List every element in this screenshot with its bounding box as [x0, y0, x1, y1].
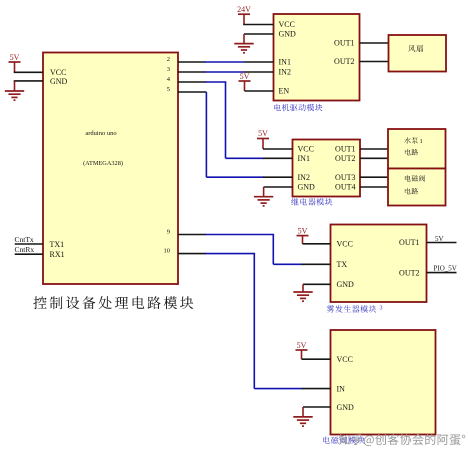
svg-text:5: 5: [167, 86, 170, 93]
svg-text:arduino uno: arduino uno: [85, 130, 116, 137]
ground (relay GND): [263, 187, 265, 197]
svg-text:GND: GND: [50, 77, 68, 86]
svg-text:CntTx: CntTx: [15, 235, 34, 244]
water pump circuit block: [388, 129, 446, 169]
wire relay OUT1: [360, 148, 388, 150]
wire U1 VCC: [14, 71, 43, 73]
svg-text:TX1: TX1: [50, 240, 65, 249]
svg-text:GND: GND: [337, 403, 355, 412]
label motor driver module: [274, 104, 322, 111]
label solenoid valve module: [323, 436, 365, 443]
MCU block U1 (controller): [43, 53, 178, 285]
solenoid valve circuit block: [388, 169, 446, 206]
svg-text:IN1: IN1: [298, 154, 310, 163]
wire relay GND: [264, 186, 293, 188]
power port 5V (module3 VCC): [297, 235, 309, 237]
motor driver block: [274, 14, 360, 101]
wire pin4 to relay IN1: [178, 81, 206, 83]
wire U1 GND: [14, 80, 43, 82]
wire motor EN: [245, 90, 274, 92]
fan block: [389, 35, 447, 72]
label controller module title: [33, 296, 193, 309]
ground (U1 GND): [14, 81, 16, 91]
svg-text:IN: IN: [337, 385, 346, 394]
svg-text:CntRx: CntRx: [15, 245, 35, 254]
svg-text:5V: 5V: [297, 341, 307, 350]
relay block: [293, 140, 361, 197]
svg-text:24V: 24V: [237, 5, 251, 14]
svg-text:OUT1: OUT1: [399, 238, 419, 247]
pin stub bottom IN: [302, 388, 331, 390]
svg-text:GND: GND: [298, 183, 316, 192]
svg-text:(ATMEGA328): (ATMEGA328): [83, 160, 123, 167]
svg-text:3: 3: [167, 66, 170, 73]
svg-text:OUT2: OUT2: [334, 57, 354, 66]
power port 5V (U1 VCC): [9, 61, 21, 63]
label relay module: [291, 198, 332, 205]
svg-text:OUT2: OUT2: [335, 154, 355, 163]
pin stub motor IN1: [244, 61, 274, 63]
text fan: [408, 45, 423, 52]
svg-text:5V: 5V: [258, 129, 268, 138]
wire module3 GND: [303, 283, 331, 285]
wire relay OUT3: [360, 176, 388, 178]
wire pin5 to relay IN2: [178, 91, 206, 93]
svg-text:EN: EN: [279, 87, 290, 96]
wire relay OUT4: [360, 186, 388, 188]
watermark zhihu: [339, 434, 465, 446]
wire motor VCC: [243, 24, 273, 26]
svg-text:5V: 5V: [298, 226, 308, 235]
svg-text:OUT1: OUT1: [335, 145, 355, 154]
svg-text:RX1: RX1: [50, 250, 65, 259]
power port 5V (motor EN): [239, 80, 251, 82]
svg-text:VCC: VCC: [337, 355, 353, 364]
power port 5V (bottom VCC): [296, 349, 308, 351]
svg-text:IN2: IN2: [298, 173, 310, 182]
wire motor OUT2 to fan: [360, 61, 389, 63]
svg-text:1: 1: [420, 138, 423, 145]
wire pin10 to bottom module IN: [178, 253, 206, 255]
text water pump 1 circuit: [404, 137, 418, 144]
wire motor GND: [244, 33, 274, 35]
wire pin2 to motor IN1: [178, 61, 206, 63]
wire relay VCC: [263, 148, 293, 150]
wire bottom VCC: [302, 358, 331, 360]
pin stub motor IN2: [244, 71, 274, 73]
ground (bottom GND): [302, 407, 304, 417]
svg-text:IN1: IN1: [279, 58, 291, 67]
svg-text:2: 2: [167, 56, 170, 63]
wire module3 OUT1: [427, 242, 457, 244]
fog generator block: [331, 225, 427, 303]
svg-text:5V: 5V: [10, 53, 20, 62]
power port 24V (motor VCC): [238, 13, 250, 15]
wire bottom GND: [303, 406, 331, 408]
wire module3 OUT2: [427, 272, 457, 274]
wire pin3 to motor IN2: [178, 71, 206, 73]
svg-text:GND: GND: [337, 280, 355, 289]
pin stub relay IN2: [263, 176, 293, 178]
wire U1 TX1: [15, 243, 43, 245]
wire pin9 to module3 TX: [178, 234, 206, 236]
svg-text:3: 3: [380, 306, 383, 312]
wire relay OUT2: [360, 157, 388, 159]
svg-text:TX: TX: [337, 260, 348, 269]
pin stub relay IN1: [263, 157, 293, 159]
power port 5V (relay VCC): [257, 138, 269, 140]
svg-text:5V: 5V: [240, 72, 250, 81]
wire module3 VCC: [303, 243, 331, 245]
svg-text:VCC: VCC: [298, 145, 314, 154]
pin stub module3 TX: [302, 263, 331, 265]
svg-text:OUT1: OUT1: [334, 39, 354, 48]
svg-text:PIO_5V: PIO_5V: [434, 264, 457, 272]
svg-text:OUT3: OUT3: [335, 173, 355, 182]
svg-text:OUT4: OUT4: [335, 183, 355, 192]
svg-text:VCC: VCC: [279, 20, 295, 29]
ground (motor GND): [243, 34, 245, 44]
text solenoid valve circuit: [405, 175, 425, 181]
svg-text:GND: GND: [279, 30, 297, 39]
ground (module3 GND): [302, 284, 304, 292]
svg-text:5V: 5V: [435, 235, 444, 243]
svg-text:9: 9: [167, 228, 170, 235]
bottom module block: [331, 330, 436, 435]
wire motor OUT1 to fan: [360, 42, 389, 44]
svg-text:10: 10: [164, 247, 171, 254]
wire U1 RX1: [15, 253, 43, 255]
svg-text:VCC: VCC: [337, 239, 353, 248]
svg-text:OUT2: OUT2: [399, 268, 419, 277]
svg-text:IN2: IN2: [279, 68, 291, 77]
label fog generator module: [327, 305, 377, 312]
